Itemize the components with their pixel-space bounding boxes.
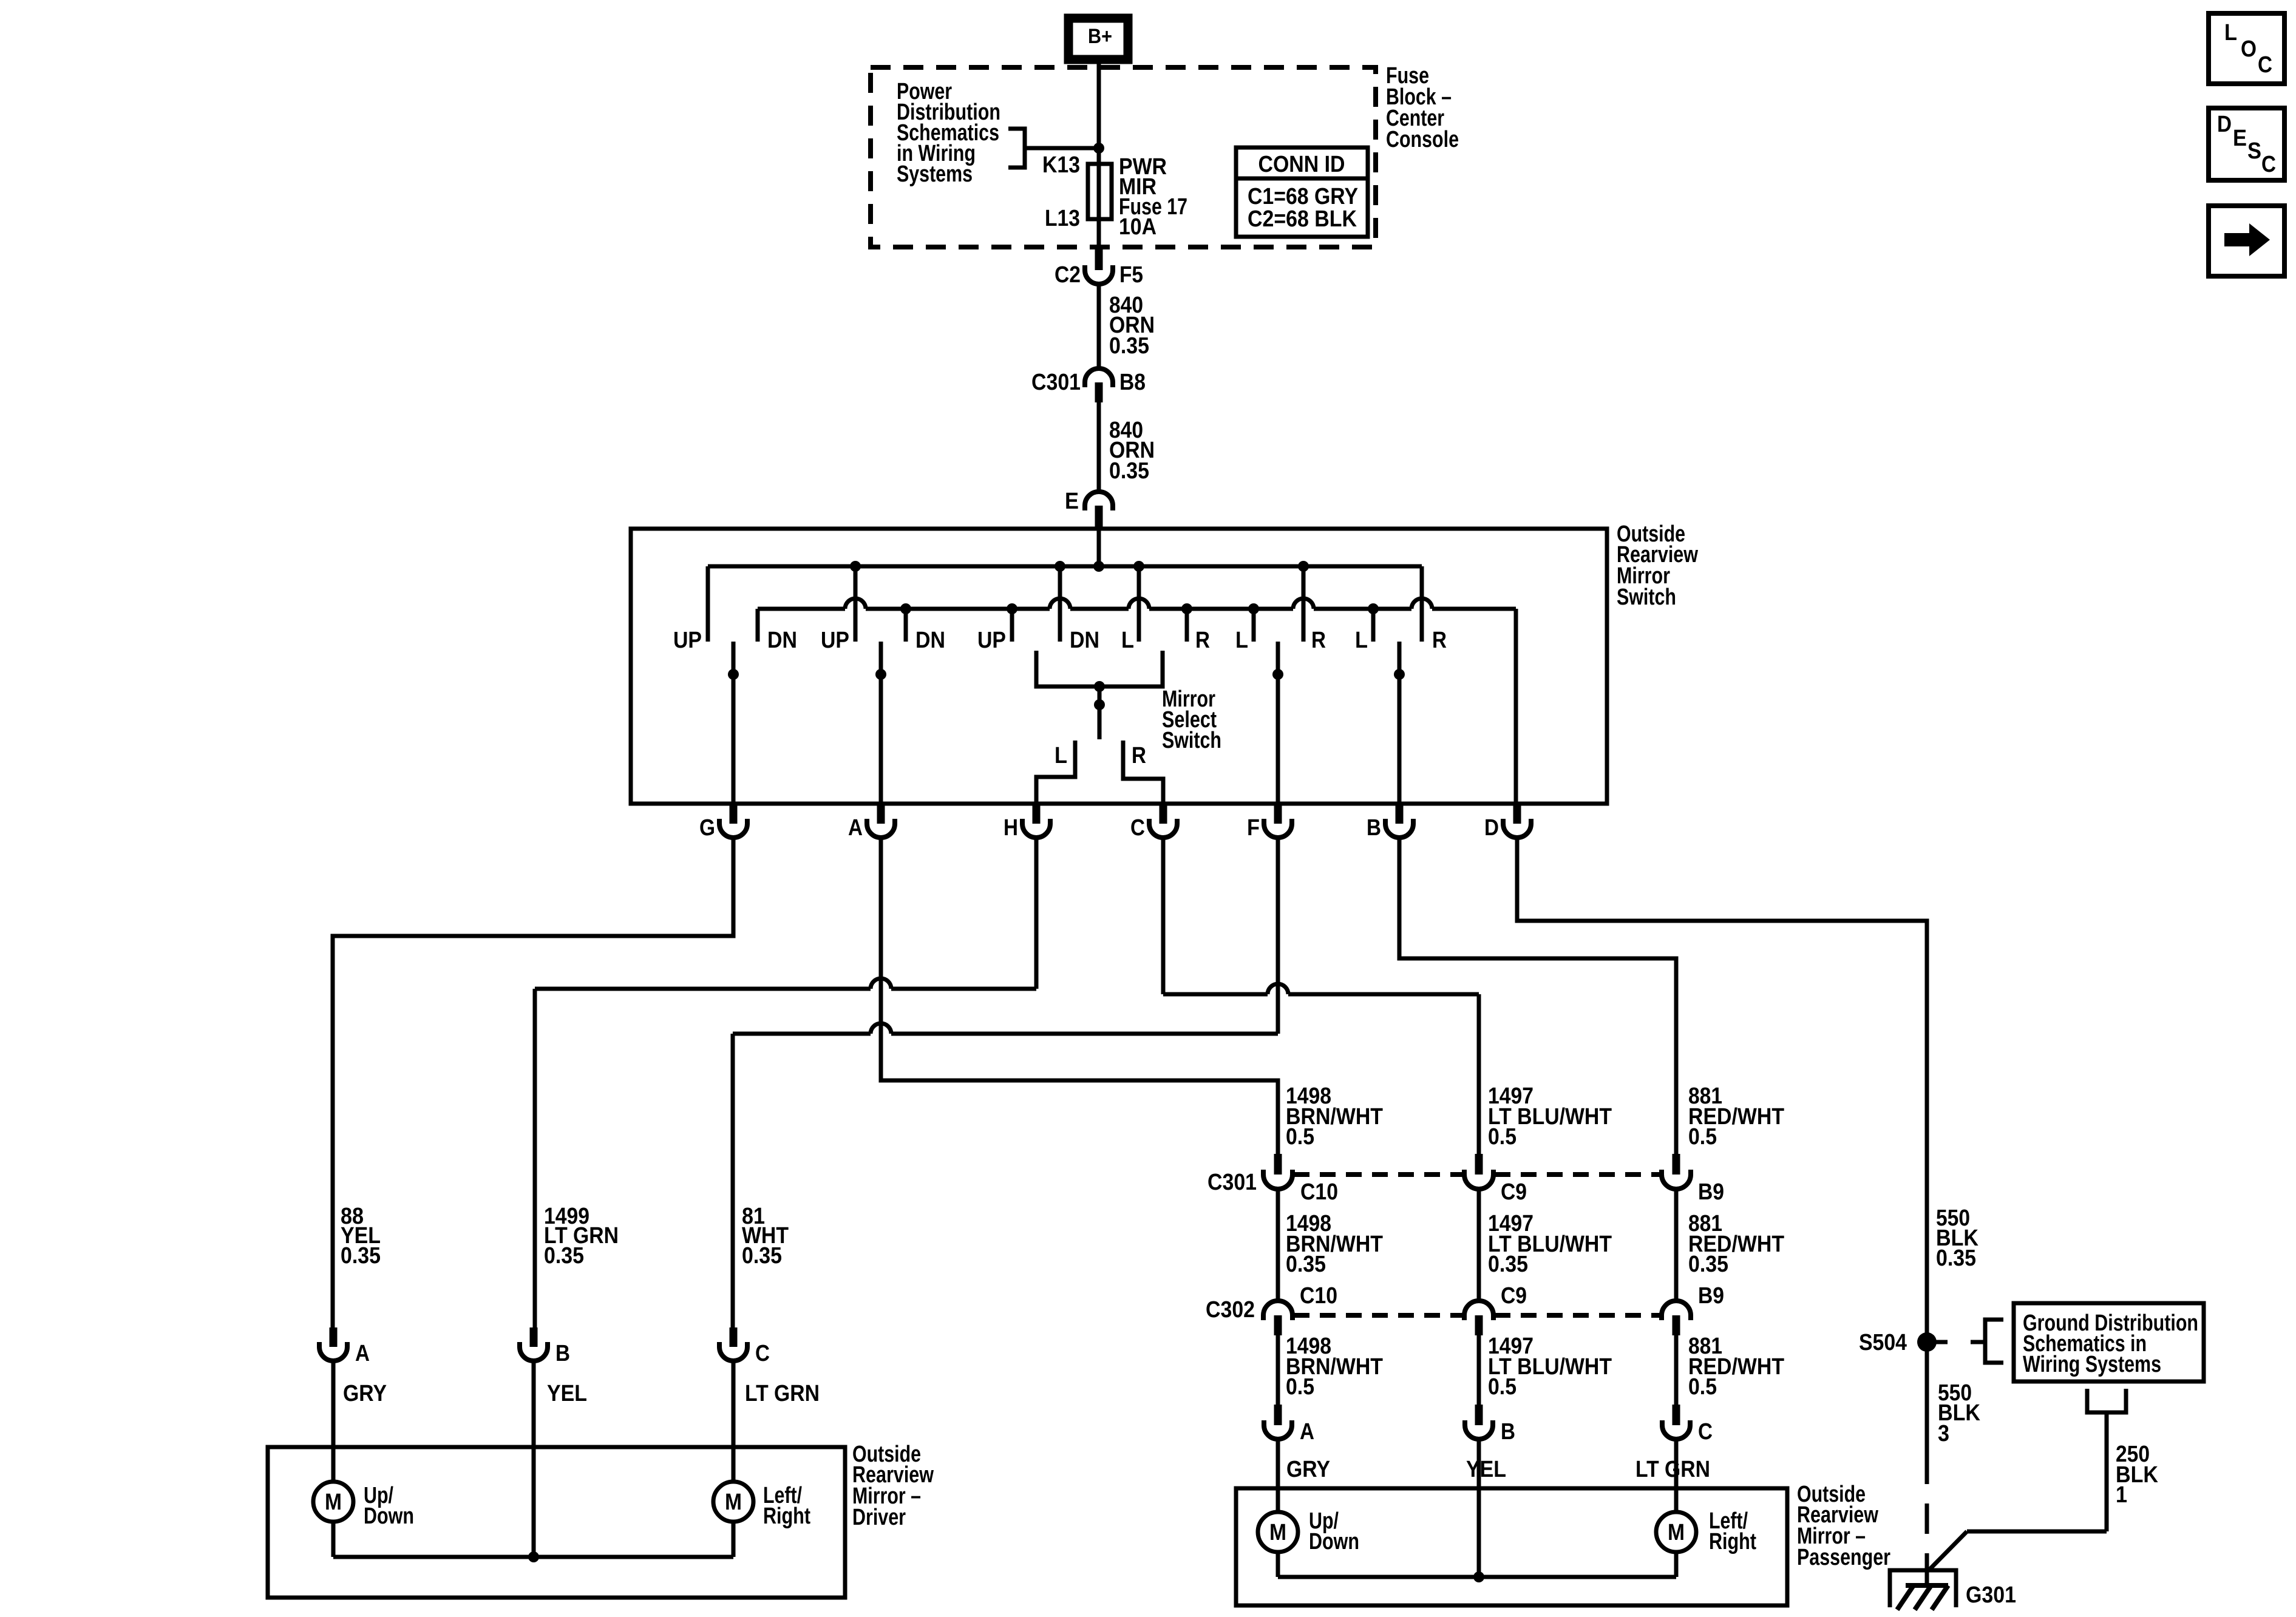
svg-text:GRY: GRY <box>343 1381 387 1406</box>
svg-text:UP: UP <box>673 628 702 653</box>
svg-text:S504: S504 <box>1859 1330 1907 1355</box>
svg-text:R: R <box>1132 743 1146 768</box>
svg-text:0.35: 0.35 <box>341 1243 381 1269</box>
svg-text:0.5: 0.5 <box>1488 1374 1517 1400</box>
svg-text:L: L <box>1235 628 1248 653</box>
svg-text:0.35: 0.35 <box>1488 1252 1528 1277</box>
svg-text:GRY: GRY <box>1286 1457 1330 1482</box>
svg-text:C: C <box>755 1341 770 1366</box>
svg-text:L: L <box>1355 628 1368 653</box>
svg-text:0.35: 0.35 <box>742 1243 782 1269</box>
svg-text:C: C <box>2258 52 2272 78</box>
svg-text:A: A <box>1300 1419 1314 1445</box>
svg-text:Console: Console <box>1386 127 1459 152</box>
svg-text:E: E <box>2233 126 2247 151</box>
svg-text:C: C <box>1130 815 1145 841</box>
svg-text:C2: C2 <box>1055 262 1081 288</box>
svg-text:Wiring Systems: Wiring Systems <box>2023 1352 2161 1377</box>
svg-text:M: M <box>725 1490 742 1515</box>
svg-text:LT GRN: LT GRN <box>745 1381 820 1406</box>
svg-text:0.5: 0.5 <box>1286 1124 1314 1150</box>
svg-text:Right: Right <box>1709 1529 1756 1554</box>
svg-text:B9: B9 <box>1698 1179 1724 1205</box>
svg-text:B9: B9 <box>1698 1283 1724 1309</box>
svg-text:DN: DN <box>1070 628 1099 653</box>
svg-text:S: S <box>2247 138 2261 164</box>
svg-text:L: L <box>1055 743 1067 768</box>
svg-text:B: B <box>555 1341 570 1366</box>
svg-text:C2=68 BLK: C2=68 BLK <box>1248 206 1357 232</box>
svg-text:Switch: Switch <box>1162 728 1221 753</box>
svg-text:F5: F5 <box>1119 262 1143 288</box>
svg-text:R: R <box>1195 628 1210 653</box>
svg-text:M: M <box>1668 1520 1685 1545</box>
svg-text:YEL: YEL <box>547 1381 587 1406</box>
svg-text:0.35: 0.35 <box>1286 1252 1326 1277</box>
svg-text:C: C <box>2261 152 2276 177</box>
svg-text:0.35: 0.35 <box>544 1243 584 1269</box>
svg-text:Driver: Driver <box>852 1505 906 1530</box>
svg-text:O: O <box>2241 36 2257 62</box>
svg-text:Switch: Switch <box>1617 585 1676 610</box>
svg-text:Down: Down <box>1309 1529 1359 1554</box>
svg-text:D: D <box>1484 815 1499 841</box>
svg-text:Passenger: Passenger <box>1797 1545 1890 1570</box>
svg-text:0.5: 0.5 <box>1688 1124 1717 1150</box>
svg-text:DN: DN <box>915 628 945 653</box>
svg-text:1: 1 <box>2116 1482 2127 1508</box>
svg-text:0.5: 0.5 <box>1688 1374 1717 1400</box>
svg-text:L: L <box>1121 628 1134 653</box>
svg-text:C: C <box>1698 1419 1713 1445</box>
svg-text:R: R <box>1432 628 1447 653</box>
svg-text:M: M <box>325 1490 342 1515</box>
svg-text:C9: C9 <box>1501 1179 1527 1205</box>
svg-text:L13: L13 <box>1045 206 1080 231</box>
svg-text:K13: K13 <box>1042 152 1080 178</box>
svg-text:UP: UP <box>821 628 849 653</box>
svg-text:D: D <box>2217 112 2232 137</box>
svg-text:B: B <box>1367 815 1381 841</box>
svg-text:M: M <box>1269 1520 1286 1545</box>
svg-text:C9: C9 <box>1501 1283 1527 1309</box>
svg-text:3: 3 <box>1938 1421 1949 1446</box>
svg-text:R: R <box>1311 628 1326 653</box>
svg-text:YEL: YEL <box>1466 1457 1506 1482</box>
svg-text:Systems: Systems <box>897 161 973 187</box>
svg-text:C301: C301 <box>1031 370 1081 395</box>
svg-text:G: G <box>699 815 715 841</box>
svg-text:DN: DN <box>767 628 797 653</box>
svg-text:0.35: 0.35 <box>1688 1252 1728 1277</box>
svg-text:B: B <box>1501 1419 1515 1445</box>
svg-text:B8: B8 <box>1119 370 1146 395</box>
svg-text:0.35: 0.35 <box>1109 458 1149 484</box>
svg-text:CONN ID: CONN ID <box>1258 152 1345 177</box>
svg-text:A: A <box>355 1341 370 1366</box>
svg-text:Down: Down <box>364 1503 414 1529</box>
svg-text:H: H <box>1004 815 1018 841</box>
svg-text:C1=68 GRY: C1=68 GRY <box>1248 184 1358 209</box>
svg-text:0.5: 0.5 <box>1286 1374 1314 1400</box>
svg-text:UP: UP <box>977 628 1006 653</box>
svg-text:Right: Right <box>763 1503 810 1529</box>
svg-text:10A: 10A <box>1119 214 1156 240</box>
svg-text:C10: C10 <box>1300 1283 1337 1309</box>
svg-text:0.35: 0.35 <box>1109 333 1149 359</box>
svg-text:B+: B+ <box>1088 25 1112 48</box>
svg-text:0.35: 0.35 <box>1936 1246 1976 1271</box>
svg-text:0.5: 0.5 <box>1488 1124 1517 1150</box>
svg-text:E: E <box>1065 489 1079 514</box>
svg-text:C301: C301 <box>1207 1170 1257 1195</box>
svg-text:F: F <box>1247 815 1260 841</box>
svg-text:LT GRN: LT GRN <box>1635 1457 1710 1482</box>
svg-text:A: A <box>848 815 863 841</box>
svg-text:C302: C302 <box>1206 1297 1255 1323</box>
svg-text:G301: G301 <box>1966 1582 2016 1608</box>
svg-text:L: L <box>2224 20 2237 46</box>
svg-text:C10: C10 <box>1300 1179 1338 1205</box>
